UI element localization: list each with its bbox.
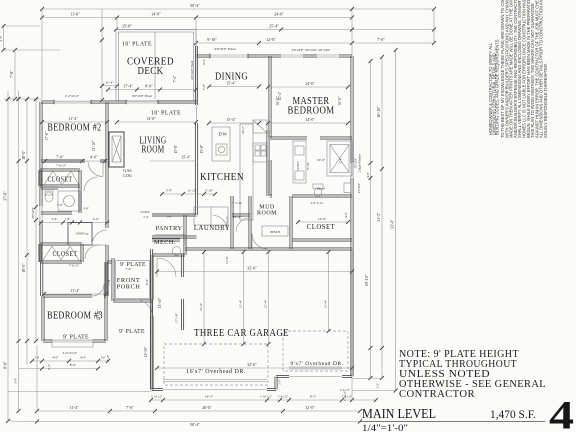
svg-text:7'-0": 7'-0" <box>377 37 385 42</box>
svg-text:24'-8": 24'-8" <box>274 12 284 17</box>
kitchen wall east <box>267 130 269 196</box>
svg-text:14'-0": 14'-0" <box>305 117 315 122</box>
svg-text:2'-4": 2'-4" <box>143 216 148 219</box>
dim master 14'-0 upper <box>266 81 350 89</box>
bath vanity left wing <box>58 191 80 211</box>
svg-text:7'-0": 7'-0" <box>57 203 64 207</box>
svg-text:16'x7' Overhead DR.: 16'x7' Overhead DR. <box>186 369 246 375</box>
svg-text:50'-4": 50'-4" <box>190 3 200 8</box>
dim right 53'-0 <box>390 48 398 393</box>
svg-text:3'-0": 3'-0" <box>202 58 206 65</box>
svg-text:6'0"x6'0" Fixed: 6'0"x6'0" Fixed <box>214 47 235 51</box>
svg-text:11'-4": 11'-4" <box>70 288 80 293</box>
dim deck left 11'-4 <box>100 81 119 88</box>
svg-text:18'-0": 18'-0" <box>21 263 26 273</box>
svg-text:BEDROOM #2: BEDROOM #2 <box>48 122 102 134</box>
note text block <box>399 349 546 400</box>
svg-text:21'-4": 21'-4" <box>324 299 328 308</box>
svg-text:4'-6": 4'-6" <box>344 211 348 218</box>
svg-text:4'-0": 4'-0" <box>90 155 98 160</box>
svg-text:BEDROOM #3: BEDROOM #3 <box>47 310 103 322</box>
door arc mud hall <box>236 218 250 232</box>
svg-text:11'-4": 11'-4" <box>105 81 114 85</box>
svg-text:12'-0": 12'-0" <box>305 405 315 410</box>
svg-text:14'-0": 14'-0" <box>305 81 315 86</box>
svg-text:1'-4 1/2": 1'-4 1/2" <box>344 391 347 401</box>
dim dining 15'-4 upper <box>207 81 261 89</box>
dim bedroom2 11'-4 <box>40 116 109 124</box>
dim garage bay line 3 <box>264 250 271 346</box>
dim right 29'-10 line <box>364 59 373 380</box>
dim bedroom3 south 8'-0 <box>19 363 101 371</box>
svg-text:BEDROOM: BEDROOM <box>288 105 335 117</box>
svg-text:7'-0": 7'-0" <box>56 155 64 160</box>
covered deck outline <box>116 30 196 102</box>
svg-text:7'-4": 7'-4" <box>107 278 111 285</box>
garage door sill 16ft <box>163 389 267 391</box>
front porch walls <box>112 258 152 302</box>
svg-text:COATS: COATS <box>141 211 150 214</box>
svg-text:CLOSET: CLOSET <box>307 224 336 231</box>
svg-text:PANTRY: PANTRY <box>156 225 183 232</box>
door arc laundry <box>213 216 227 230</box>
svg-text:32'-0": 32'-0" <box>247 266 257 271</box>
wall dining north <box>197 55 271 57</box>
laundry machines <box>194 207 228 225</box>
door arc closet2 hall <box>85 245 99 259</box>
svg-text:THREE CAR GARAGE: THREE CAR GARAGE <box>194 327 289 339</box>
closet1 doors <box>44 171 53 185</box>
wall bath south y196 <box>270 195 352 197</box>
garage door sill 9ft <box>289 376 342 378</box>
svg-text:DW: DW <box>219 132 228 137</box>
window dining north <box>210 54 248 56</box>
svg-text:PORCH: PORCH <box>117 284 141 291</box>
svg-text:9'-8": 9'-8" <box>145 278 149 285</box>
margin text disclaimer column <box>500 0 548 138</box>
svg-text:10' PLATE: 10' PLATE <box>122 41 152 48</box>
svg-text:17'-10": 17'-10" <box>175 312 179 323</box>
wall center x196 lower <box>195 123 197 215</box>
svg-text:10'-0": 10'-0" <box>317 158 326 162</box>
svg-text:1'-8": 1'-8" <box>106 354 110 361</box>
svg-text:11'-10": 11'-10" <box>144 346 148 357</box>
entry door <box>151 300 153 316</box>
svg-text:1'-6": 1'-6" <box>34 357 39 360</box>
svg-text:9' PLATE: 9' PLATE <box>119 328 145 335</box>
svg-text:4'-0": 4'-0" <box>80 356 87 360</box>
windows master north <box>281 54 303 56</box>
svg-text:2-2'2"x5'-0": 2-2'2"x5'-0" <box>63 351 78 355</box>
toilet master <box>313 184 323 189</box>
svg-text:5'-4": 5'-4" <box>166 189 173 193</box>
svg-text:LINEN: LINEN <box>296 161 300 171</box>
svg-text:CONTRACTOR: CONTRACTOR <box>399 389 475 400</box>
svg-text:25'-8": 25'-8" <box>122 24 132 29</box>
svg-text:2'-0": 2'-0" <box>279 379 282 384</box>
svg-text:4'-8": 4'-8" <box>366 171 370 178</box>
svg-text:21'-4": 21'-4" <box>264 299 268 308</box>
dim garage bay line 1 <box>199 250 206 346</box>
wall bedroom2 east <box>106 102 108 161</box>
svg-text:21'-4": 21'-4" <box>239 299 243 308</box>
window bedroom2 north <box>54 100 91 102</box>
svg-text:6'0"x6'0" Fixed: 6'0"x6'0" Fixed <box>132 94 152 98</box>
svg-text:29'-10": 29'-10" <box>364 274 369 286</box>
dim master 14'-0 lower <box>266 117 350 125</box>
svg-text:LINEN up: LINEN up <box>76 232 89 236</box>
svg-text:25'-4": 25'-4" <box>182 156 191 160</box>
dim left window 2'0x4'0 <box>31 97 38 343</box>
dim bottom overall 50'-4 <box>35 420 362 428</box>
svg-text:15'-8": 15'-8" <box>174 144 178 153</box>
wall pantry laundry y215 <box>152 214 250 216</box>
wall bedroom2 south <box>41 160 107 162</box>
dim left 18'-0 18'-0 <box>21 97 29 365</box>
svg-text:8'-8": 8'-8" <box>3 361 8 369</box>
kitchen sink <box>216 144 227 155</box>
door arc closet1 hall <box>84 177 98 191</box>
svg-text:BENCH: BENCH <box>270 231 279 234</box>
svg-text:20'-0": 20'-0" <box>202 405 212 410</box>
wall center x196 door gap marks <box>196 105 198 123</box>
dim garage 32'-0 lower <box>155 362 354 370</box>
svg-text:MAIN LEVEL: MAIN LEVEL <box>362 406 436 421</box>
svg-text:3'-4": 3'-4" <box>14 377 18 384</box>
pantry shelves <box>155 234 185 236</box>
svg-text:7'-0": 7'-0" <box>125 267 132 271</box>
svg-text:17'-6": 17'-6" <box>45 131 49 141</box>
svg-text:16'-3": 16'-3" <box>205 395 214 399</box>
svg-text:7'-4": 7'-4" <box>173 75 177 82</box>
closet2 walls <box>39 243 83 263</box>
svg-text:LAUNDRY: LAUNDRY <box>194 225 230 232</box>
svg-text:14'-0": 14'-0" <box>146 116 156 121</box>
dim left y99 ticks <box>6 97 38 101</box>
water heater <box>172 247 181 256</box>
svg-text:11'-0": 11'-0" <box>70 12 80 17</box>
dim garage bay line 2 <box>239 250 246 346</box>
door arc bedroom2 <box>88 162 103 177</box>
dim bottom 11'-4 7'-0 20'-0 12'-0 <box>35 405 362 413</box>
kitchen counter east band <box>240 124 253 220</box>
window west wall <box>39 206 41 221</box>
svg-text:2'0"x4'0": 2'0"x4'0" <box>31 206 35 218</box>
svg-text:5'-4": 5'-4" <box>47 363 51 370</box>
svg-text:KITCHEN: KITCHEN <box>200 171 244 183</box>
svg-text:25'-4": 25'-4" <box>269 24 279 29</box>
dim garage 32'-0 upper <box>155 266 354 274</box>
svg-text:4'-0": 4'-0" <box>93 217 100 221</box>
svg-text:18'-0": 18'-0" <box>21 150 26 160</box>
dim kitchen 5'-4 11'-10 3'-10 <box>160 189 217 197</box>
svg-text:15'-4": 15'-4" <box>226 81 236 86</box>
bedroom3 window bay <box>52 339 93 341</box>
svg-text:15'-8": 15'-8" <box>200 144 204 153</box>
front porch inner line <box>116 261 150 299</box>
wall bath north y138 <box>270 137 352 139</box>
svg-text:2'0"x6'8": 2'0"x6'8" <box>358 183 361 193</box>
svg-text:2 high Window: 2 high Window <box>358 153 362 172</box>
svg-text:1,470 S.F.: 1,470 S.F. <box>490 407 536 421</box>
dim top overall 50'-4" <box>40 3 436 11</box>
svg-text:3'-8": 3'-8" <box>83 207 90 211</box>
dim left 4'-0 <box>0 24 6 52</box>
svg-text:8'-3": 8'-3" <box>310 395 317 399</box>
svg-text:1'-10 1/2": 1'-10 1/2" <box>151 395 164 399</box>
title underline <box>360 421 545 423</box>
svg-text:16'-0": 16'-0" <box>276 96 280 106</box>
shower master <box>327 141 352 176</box>
wall bedroom3 outline <box>42 262 107 342</box>
fireplace <box>109 132 124 167</box>
dim deck left x102 <box>100 9 104 102</box>
wall master north <box>270 55 352 57</box>
svg-text:15'-10": 15'-10" <box>97 309 101 321</box>
svg-text:4'-0": 4'-0" <box>52 356 59 360</box>
svg-text:16'-0": 16'-0" <box>338 96 342 106</box>
dim deck bottom 17'-4 8'-0 <box>106 84 198 92</box>
mudroom bench <box>262 226 288 236</box>
svg-text:9' PLATE: 9' PLATE <box>120 261 146 268</box>
svg-text:DECK: DECK <box>138 65 164 77</box>
svg-text:1'-10 1/2": 1'-10 1/2" <box>260 395 273 399</box>
dim top line 25'-8 25'-4 <box>114 24 436 32</box>
margin text homeowner column <box>488 39 500 135</box>
svg-text:9'-10": 9'-10" <box>207 37 217 42</box>
svg-text:1'-8": 1'-8" <box>65 217 72 221</box>
svg-text:13'-10": 13'-10" <box>92 140 96 152</box>
svg-text:12'-8": 12'-8" <box>266 37 276 42</box>
mech walls <box>152 237 186 256</box>
dim left wing y222 <box>39 217 110 225</box>
dim top line 9'-10 12'-8 7'-0 <box>194 37 436 45</box>
window living north <box>126 100 158 102</box>
door arc bedroom3 <box>92 284 104 296</box>
svg-text:CLOSET: CLOSET <box>48 177 73 184</box>
svg-text:32'-0": 32'-0" <box>247 362 257 367</box>
svg-text:7'-8": 7'-8" <box>9 70 14 78</box>
linen closet <box>68 223 92 246</box>
wall west exterior upper <box>40 102 43 296</box>
vanity master bath <box>293 141 306 183</box>
wall center x196 upper <box>195 46 197 105</box>
dim bedroom3 11'-4 <box>42 288 108 296</box>
svg-text:2'6"x4'0" 3'0"x4'0" 2'6"x4'0: 2'6"x4'0" 3'0"x4'0" 2'6"x4'0" <box>291 48 331 52</box>
svg-text:11'-10": 11'-10" <box>187 189 197 193</box>
svg-text:8'-10": 8'-10" <box>306 161 310 169</box>
svg-text:7'-6 1/2": 7'-6 1/2" <box>69 264 80 268</box>
svg-text:LOG: LOG <box>123 173 132 178</box>
dim top vertical connectors <box>41 9 43 99</box>
laundry walls <box>152 196 233 249</box>
door arc garage entry <box>157 258 176 277</box>
svg-text:11'-6": 11'-6" <box>225 255 229 264</box>
closet1 walls <box>39 169 81 187</box>
wall master west x270 <box>269 56 271 196</box>
kitchen counter west peninsula <box>212 127 230 161</box>
svg-text:12'-0": 12'-0" <box>318 217 327 221</box>
svg-text:9'x7' Overhead DR.: 9'x7' Overhead DR. <box>290 361 343 367</box>
hall small walls <box>152 214 197 241</box>
entry vestibule wall <box>181 254 183 330</box>
svg-text:6'0"x6'0" Fixed: 6'0"x6'0" Fixed <box>190 60 194 79</box>
svg-text:1'4" C.O.: 1'4" C.O. <box>311 201 324 205</box>
svg-text:ROOM: ROOM <box>257 211 277 217</box>
garage door dashed 9x7 <box>283 331 348 371</box>
range <box>253 143 267 162</box>
svg-text:5'-4": 5'-4" <box>339 157 343 164</box>
entry walls <box>107 255 153 390</box>
dim top line 11'-0 14'-8 24'-8 <box>40 12 354 20</box>
svg-text:1'-6": 1'-6" <box>100 357 105 360</box>
dim right 16'-10 31'-2 <box>376 55 384 380</box>
closet2 door marks <box>43 246 52 260</box>
svg-text:2'-2"x5'-0": 2'-2"x5'-0" <box>65 94 80 98</box>
svg-text:23'-2": 23'-2" <box>241 125 245 134</box>
svg-text:16'-4": 16'-4" <box>233 215 242 219</box>
svg-text:7'-8": 7'-8" <box>202 83 206 90</box>
refrigerator <box>253 120 267 133</box>
dim closet 12'-0 <box>296 217 350 224</box>
wall x107 hall <box>106 161 108 296</box>
svg-text:53'-0": 53'-0" <box>390 219 395 229</box>
svg-text:BUILDING CODES, AND GRADE REQU: BUILDING CODES, AND GRADE REQUIREMENTS <box>495 39 500 135</box>
svg-text:SOLELY RESPONSIBLE THEREAFTER.: SOLELY RESPONSIBLE THEREAFTER. <box>543 63 548 138</box>
dim left overall 37'-8 <box>3 91 11 423</box>
dim left 7'-8 <box>9 48 17 101</box>
mudroom walls <box>249 196 292 249</box>
dim garage bay line 4 <box>324 250 331 333</box>
svg-text:3'-10": 3'-10" <box>205 189 214 193</box>
svg-text:15'-4": 15'-4" <box>226 117 236 122</box>
svg-text:1'-4 1/2": 1'-4 1/2" <box>278 395 289 399</box>
wall master east x352 <box>351 56 353 377</box>
dim living 14'-0 <box>115 116 198 124</box>
svg-text:2'-2": 2'-2" <box>376 382 380 389</box>
svg-text:8'-0": 8'-0" <box>70 363 77 367</box>
svg-text:5'-4": 5'-4" <box>51 217 58 221</box>
master closet walls <box>292 239 352 241</box>
dim left top connector <box>4 25 40 27</box>
svg-text:MECH:: MECH: <box>154 239 176 246</box>
dim left second <box>14 91 21 413</box>
wall bath left wing <box>41 186 81 214</box>
garage walls <box>150 248 353 391</box>
svg-text:9' PLATE: 9' PLATE <box>63 334 89 341</box>
svg-text:ROOM: ROOM <box>142 144 165 156</box>
svg-text:11'-4": 11'-4" <box>68 116 78 121</box>
dim bedroom2 south 7'-0 4'-0 <box>43 155 107 164</box>
svg-text:4: 4 <box>549 393 574 432</box>
svg-text:7'-6 1/2": 7'-6 1/2" <box>56 164 67 168</box>
svg-text:50'-4": 50'-4" <box>190 422 200 427</box>
svg-text:31'-2": 31'-2" <box>376 212 381 222</box>
dim dining 15'-4 lower <box>207 117 261 125</box>
svg-text:8'-0": 8'-0" <box>145 84 153 89</box>
door arc mudroom garage <box>252 234 268 250</box>
garage door dashed 16x7 <box>164 344 268 385</box>
window master bath east <box>350 163 352 178</box>
linen door arc <box>92 230 107 245</box>
svg-text:7'-0": 7'-0" <box>126 405 134 410</box>
svg-text:37'-8": 37'-8" <box>3 191 8 201</box>
svg-text:10'-0": 10'-0" <box>317 187 326 191</box>
svg-text:17'-4": 17'-4" <box>123 84 133 89</box>
wall pantry east <box>184 215 186 245</box>
dim garage right bottom connectors <box>351 378 353 400</box>
svg-text:4'-0": 4'-0" <box>0 34 3 41</box>
svg-text:1/4"=1'-0": 1/4"=1'-0" <box>362 423 408 432</box>
dim bottom connectors <box>36 345 38 411</box>
dim bottom garage door tiny <box>149 395 378 403</box>
dim bedroom3 south 4'-0 4'-0 <box>30 356 110 364</box>
svg-text:21'-4": 21'-4" <box>199 302 203 311</box>
bath toilet left wing <box>45 192 53 202</box>
deck post line <box>154 32 156 99</box>
wall north bedroom2-living <box>41 101 197 103</box>
svg-text:16'-10": 16'-10" <box>376 106 381 118</box>
svg-text:14'-8": 14'-8" <box>151 12 161 17</box>
svg-text:11'-10": 11'-10" <box>158 297 162 308</box>
svg-text:11'-4": 11'-4" <box>69 405 79 410</box>
